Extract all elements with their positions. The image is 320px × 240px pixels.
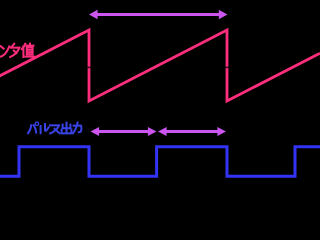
wire high-time arrow (middle right double-headed) (158, 127, 226, 136)
wire low-time arrow (middle left double-headed) (91, 127, 157, 136)
wire period arrow (top double-headed) (89, 10, 227, 20)
wire sawtooth counter-value waveform (0, 30, 320, 101)
node threshold notch on second sawtooth drop (225, 67, 229, 69)
node label counter-value (カウンタ値, clipped: ンタ値 visible) (0, 44, 34, 57)
node label pulse-output (パルス出力) (28, 122, 81, 133)
wire pulse output waveform (0, 147, 320, 176)
node threshold notch on first sawtooth drop (87, 67, 91, 69)
